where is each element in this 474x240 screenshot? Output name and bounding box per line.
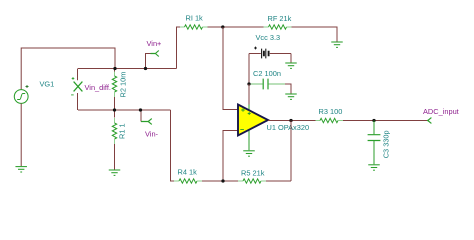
label C3 330p xyxy=(381,130,390,158)
label VG1 xyxy=(40,80,55,89)
wire meter top lead xyxy=(77,69,79,81)
label U1 OPAx320 xyxy=(267,123,310,132)
node junction Vin- xyxy=(139,108,142,111)
svg-text:Vin-: Vin- xyxy=(145,129,159,138)
node junction B R2 R1 xyxy=(113,108,116,111)
wire C2 to ground xyxy=(285,84,291,94)
svg-text:U1 OPAx320: U1 OPAx320 xyxy=(267,123,310,132)
wire output row left xyxy=(268,120,316,122)
svg-text:C3 330p: C3 330p xyxy=(381,130,390,158)
resistor R3 xyxy=(316,118,344,122)
ground top right xyxy=(331,42,343,47)
tap ADC_input xyxy=(427,118,431,124)
wire node B row y110 xyxy=(78,109,171,111)
label R2 10m xyxy=(119,72,128,98)
resistor RF xyxy=(264,25,292,29)
wire top row right to ground xyxy=(292,27,338,42)
wire node A row y68.5 xyxy=(78,68,177,70)
label Vin_diff xyxy=(85,83,111,92)
ground C2 xyxy=(285,94,297,99)
op-amp U1 xyxy=(238,105,268,151)
resistor R5 xyxy=(238,179,266,183)
label ADC_input xyxy=(423,107,459,116)
resistor R2 xyxy=(112,69,116,111)
wire VG1 bottom lead xyxy=(20,104,22,167)
svg-text:VG1: VG1 xyxy=(40,80,55,89)
wire Vcc to ground right xyxy=(290,54,292,63)
resistor RI xyxy=(180,25,208,29)
voltage source VG1 xyxy=(14,85,28,103)
label RI 1k xyxy=(186,14,204,23)
node junction output C3 xyxy=(372,119,375,122)
battery Vcc 3.3 xyxy=(249,47,291,59)
wire node A up to top row xyxy=(177,27,181,69)
wire feedback column xyxy=(290,121,292,182)
resistor R4 xyxy=(174,179,202,183)
wire output row right xyxy=(343,120,427,122)
label R5 21k xyxy=(241,168,265,177)
voltmeter Vin_diff xyxy=(71,77,82,95)
svg-text:R3 100: R3 100 xyxy=(319,107,343,116)
label Vin- xyxy=(145,129,159,138)
label R4 1k xyxy=(178,168,198,177)
node junction output R5 xyxy=(289,119,292,122)
capacitor C2 xyxy=(249,79,285,90)
wire top row middle xyxy=(208,26,264,28)
wire meter bottom lead xyxy=(77,93,79,110)
wire Vin+ branch xyxy=(146,54,151,69)
tap Vin+ xyxy=(151,51,159,57)
label C2 100n xyxy=(253,69,281,78)
svg-text:R1 1: R1 1 xyxy=(118,123,127,139)
label Vcc 3.3 xyxy=(256,33,281,42)
resistor R1 xyxy=(112,110,116,170)
ground below R1 xyxy=(109,170,121,175)
node junction RI RF xyxy=(221,25,224,28)
wire to op-amp inverting input xyxy=(223,131,238,182)
svg-text:Vin+: Vin+ xyxy=(147,39,162,48)
svg-text:RF 21k: RF 21k xyxy=(268,14,292,23)
wire supply down to op-amp xyxy=(248,84,250,105)
label Vin+ xyxy=(147,39,162,48)
wire Vcc down to supply node xyxy=(248,54,250,85)
svg-text:Vcc 3.3: Vcc 3.3 xyxy=(256,33,281,42)
node junction A xyxy=(113,67,116,70)
node junction R4 R5 xyxy=(221,179,224,182)
label R1 1 xyxy=(118,123,127,139)
node junction Vcc C2 xyxy=(247,82,250,85)
svg-text:Vin_diff.: Vin_diff. xyxy=(85,83,111,92)
wire VG1 top to node A xyxy=(21,48,115,90)
svg-text:C2 100n: C2 100n xyxy=(253,69,281,78)
tap Vin- xyxy=(141,119,152,125)
svg-text:RI 1k: RI 1k xyxy=(186,14,204,23)
svg-text:R4 1k: R4 1k xyxy=(178,168,198,177)
wire R5 to feedback column xyxy=(266,180,291,182)
ground below VG1 xyxy=(15,167,27,172)
node junction Vin+ xyxy=(144,67,147,70)
label RF 21k xyxy=(268,14,292,23)
label R3 100 xyxy=(319,107,343,116)
ground op-amp xyxy=(243,151,255,156)
svg-text:ADC_input: ADC_input xyxy=(423,107,459,116)
svg-text:R5 21k: R5 21k xyxy=(241,168,265,177)
capacitor C3 xyxy=(368,121,381,165)
wire Vin- branch xyxy=(140,110,142,122)
svg-text:R2 10m: R2 10m xyxy=(119,72,128,98)
wire to op-amp noninverting input xyxy=(223,27,238,110)
ground battery xyxy=(285,63,297,68)
wire node B down to R4 row xyxy=(171,110,175,181)
wire R4 to junction xyxy=(202,180,239,182)
ground C3 xyxy=(368,165,380,170)
